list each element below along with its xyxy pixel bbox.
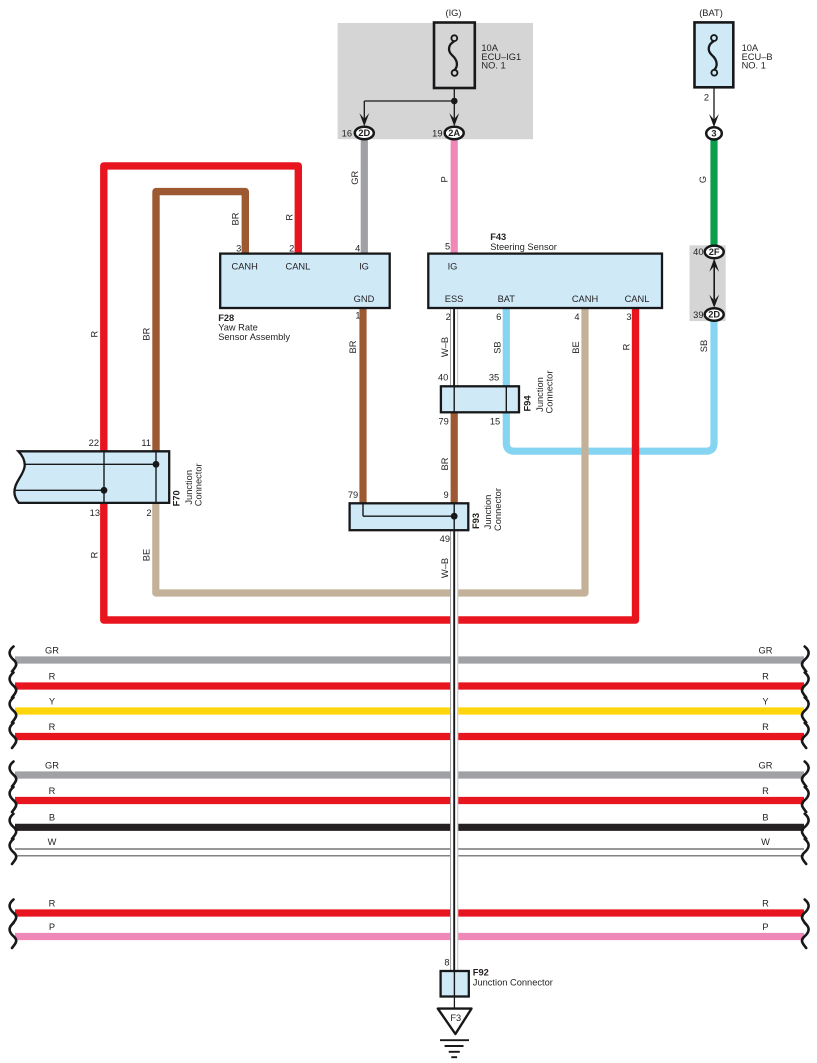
svg-text:2: 2 — [446, 312, 451, 322]
svg-text:R: R — [49, 671, 56, 681]
svg-text:R: R — [49, 722, 56, 732]
wire SB from F94 pin 15 to connector 2D — [506, 320, 714, 451]
svg-text:CANH: CANH — [232, 262, 258, 272]
svg-text:BE: BE — [571, 341, 581, 353]
svg-text:GR: GR — [759, 645, 773, 655]
svg-text:P: P — [440, 176, 450, 182]
svg-text:40: 40 — [693, 247, 703, 257]
svg-text:F3: F3 — [450, 1013, 461, 1023]
svg-text:CANH: CANH — [572, 294, 598, 304]
svg-text:W–B: W–B — [440, 337, 450, 357]
bus wire R group3 — [10, 898, 809, 924]
svg-text:Connector: Connector — [194, 463, 204, 506]
junction connector F93 box — [350, 503, 469, 530]
svg-text:R: R — [622, 343, 632, 350]
bus wire GR group1 — [10, 645, 809, 671]
svg-text:BR: BR — [231, 212, 241, 225]
svg-text:CANL: CANL — [625, 294, 650, 304]
fuse (IG) 10A ECU-IG1 NO.1 — [434, 23, 475, 89]
svg-text:4: 4 — [355, 243, 360, 253]
svg-text:F93: F93 — [471, 513, 481, 529]
svg-text:R: R — [90, 330, 100, 337]
connector oval 2A (IG) — [445, 127, 464, 140]
svg-text:5: 5 — [445, 242, 450, 252]
svg-text:P: P — [762, 922, 768, 932]
svg-text:39: 39 — [693, 310, 703, 320]
svg-text:Connector: Connector — [493, 488, 503, 531]
wire BR F28 GND to F93 pin 79 — [359, 306, 366, 504]
svg-text:R: R — [762, 722, 769, 732]
svg-text:Junction: Junction — [483, 495, 493, 530]
IG fuse output line and junction — [364, 88, 457, 119]
svg-text:W–B: W–B — [440, 558, 450, 578]
svg-text:15: 15 — [490, 417, 500, 427]
svg-text:NO. 1: NO. 1 — [742, 61, 766, 71]
svg-text:2: 2 — [704, 93, 709, 103]
connector oval 2D (IG) — [355, 127, 374, 140]
wire G battery feed — [710, 139, 717, 248]
junction connector F70 box — [14, 451, 169, 503]
junction connector F94 box — [441, 386, 519, 412]
svg-text:R: R — [284, 214, 294, 221]
svg-text:79: 79 — [438, 417, 448, 427]
svg-text:ESS: ESS — [445, 294, 464, 304]
ground F3 symbol — [438, 1009, 472, 1058]
wire W-B F43 ESS to F94 pin 40 — [451, 306, 458, 388]
svg-text:GR: GR — [45, 760, 59, 770]
svg-text:(IG): (IG) — [445, 8, 461, 18]
wire BR CAN high F28 to F70 — [156, 192, 245, 453]
svg-text:2D: 2D — [358, 128, 370, 138]
svg-text:SB: SB — [492, 341, 502, 353]
wire BR F94 pin 79 to F93 pin 9 — [451, 411, 458, 504]
svg-text:BR: BR — [142, 327, 152, 340]
wire SB F43 BAT pin 6 to F94 pin 35 — [503, 306, 510, 388]
svg-text:2D: 2D — [708, 310, 720, 320]
bus wire R group1a — [10, 671, 809, 697]
svg-text:13: 13 — [90, 508, 100, 518]
bus wire GR group2 — [10, 760, 809, 786]
svg-text:8: 8 — [444, 957, 449, 967]
bus wire R group2 — [10, 786, 809, 812]
wire BE F70 pin 2 to F43 CANH — [156, 306, 585, 593]
svg-text:11: 11 — [141, 438, 151, 448]
svg-text:W: W — [761, 837, 770, 847]
svg-text:16: 16 — [342, 128, 352, 138]
fuse (BAT) 10A ECU-B NO.1 — [695, 22, 734, 87]
bus wire R group1b — [10, 722, 809, 748]
wire F92 to ground — [453, 997, 455, 1010]
svg-text:19: 19 — [432, 128, 442, 138]
junction connector F92 box — [441, 971, 469, 997]
BAT fuse output line — [713, 87, 715, 120]
svg-text:B: B — [49, 813, 55, 823]
svg-text:B: B — [762, 813, 768, 823]
svg-text:22: 22 — [89, 438, 99, 448]
svg-text:9: 9 — [444, 490, 449, 500]
svg-text:BR: BR — [348, 340, 358, 353]
bus wire B — [10, 813, 809, 839]
svg-text:3: 3 — [236, 243, 241, 253]
svg-text:Sensor Assembly: Sensor Assembly — [218, 332, 290, 342]
svg-text:Yaw Rate: Yaw Rate — [218, 323, 258, 333]
svg-text:2: 2 — [289, 243, 294, 253]
svg-text:SB: SB — [699, 340, 709, 352]
svg-text:GR: GR — [350, 170, 360, 184]
svg-text:G: G — [698, 176, 708, 183]
connector oval 2D (lower) — [705, 308, 724, 321]
svg-text:GR: GR — [45, 645, 59, 655]
svg-text:R: R — [49, 898, 56, 908]
svg-text:P: P — [49, 922, 55, 932]
svg-text:R: R — [90, 551, 100, 558]
svg-text:F92: F92 — [473, 968, 489, 978]
arrow into 2D — [359, 113, 369, 126]
svg-text:R: R — [762, 786, 769, 796]
svg-text:2F: 2F — [709, 247, 720, 257]
svg-text:1: 1 — [355, 311, 360, 321]
svg-text:IG: IG — [359, 262, 369, 272]
svg-text:CANL: CANL — [285, 262, 310, 272]
svg-text:4: 4 — [574, 312, 579, 322]
svg-text:2: 2 — [146, 508, 151, 518]
ECU F43 Steering Sensor box — [428, 254, 662, 308]
arrow into 2A — [449, 113, 459, 126]
bus wire Y — [10, 696, 809, 722]
svg-text:Steering Sensor: Steering Sensor — [490, 242, 557, 252]
svg-text:R: R — [49, 786, 56, 796]
svg-text:IG: IG — [448, 262, 458, 272]
wire P ignition feed to F43 IG — [451, 139, 458, 256]
svg-text:F94: F94 — [522, 395, 532, 412]
2F/2D connector gray box — [690, 245, 726, 321]
svg-text:Y: Y — [49, 696, 55, 706]
svg-text:49: 49 — [440, 534, 450, 544]
IG fuse area gray box — [338, 23, 533, 139]
arrow into 3 — [709, 114, 719, 127]
svg-text:3: 3 — [626, 312, 631, 322]
svg-text:R: R — [762, 898, 769, 908]
double arrow between 2F and 2D — [709, 259, 719, 308]
svg-text:F43: F43 — [490, 232, 506, 242]
wire GR ignition feed to F28 IG — [361, 139, 368, 256]
ECU F28 Yaw Rate Sensor Assembly box — [220, 254, 390, 308]
bus wire P — [10, 922, 809, 948]
svg-text:35: 35 — [489, 373, 499, 383]
svg-text:Y: Y — [762, 696, 768, 706]
svg-text:79: 79 — [348, 490, 358, 500]
svg-text:W: W — [48, 837, 57, 847]
svg-text:BE: BE — [142, 549, 152, 561]
svg-text:NO. 1: NO. 1 — [481, 61, 505, 71]
connector oval 2F — [705, 246, 724, 259]
svg-text:40: 40 — [438, 373, 448, 383]
svg-text:Junction Connector: Junction Connector — [473, 978, 553, 988]
svg-text:R: R — [762, 671, 769, 681]
svg-text:BAT: BAT — [498, 294, 516, 304]
svg-text:Connector: Connector — [545, 371, 555, 414]
wire R CAN low loop — [104, 166, 636, 620]
bus wire W — [10, 837, 809, 864]
svg-text:GND: GND — [354, 294, 375, 304]
svg-text:F70: F70 — [172, 490, 182, 506]
svg-text:Junction: Junction — [535, 377, 545, 412]
svg-text:GR: GR — [759, 760, 773, 770]
svg-text:6: 6 — [496, 312, 501, 322]
svg-text:3: 3 — [711, 129, 716, 139]
wire W-B F93 pin 49 to F92 pin 8 — [451, 529, 458, 973]
svg-text:BR: BR — [440, 457, 450, 470]
svg-text:F28: F28 — [218, 313, 234, 323]
svg-text:2A: 2A — [448, 128, 460, 138]
svg-text:(BAT): (BAT) — [699, 8, 723, 18]
connector oval 3 — [706, 127, 722, 139]
